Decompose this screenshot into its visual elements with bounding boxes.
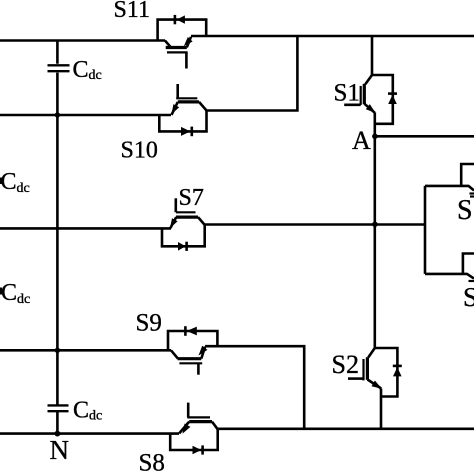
svg-text:S7: S7 — [179, 185, 204, 211]
svg-text:S: S — [463, 282, 474, 312]
svg-text:A: A — [352, 126, 371, 155]
svg-text:S8: S8 — [139, 450, 165, 474]
svg-text:S: S — [457, 195, 473, 226]
svg-text:S2: S2 — [332, 350, 359, 379]
svg-text:N: N — [50, 435, 70, 465]
svg-text:Cdc: Cdc — [73, 398, 102, 424]
svg-text:S10: S10 — [121, 138, 158, 164]
svg-text:Cdc: Cdc — [1, 169, 30, 196]
svg-text:S9: S9 — [136, 310, 162, 337]
svg-text:Cdc: Cdc — [73, 57, 102, 83]
svg-text:Cdc: Cdc — [1, 280, 30, 307]
svg-text:S1: S1 — [334, 80, 360, 107]
svg-text:S11: S11 — [114, 0, 150, 23]
